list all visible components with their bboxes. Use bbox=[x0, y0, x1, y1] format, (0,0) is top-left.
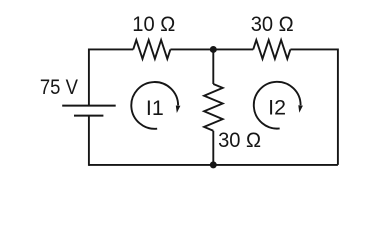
resistor R3 30Ω middle zigzag bbox=[204, 84, 223, 131]
mesh loop I1 arrowhead bbox=[176, 106, 181, 114]
wire left-bottom (from battery) bbox=[88, 116, 90, 166]
wire right side bbox=[337, 49, 339, 165]
svg-text:75 V: 75 V bbox=[40, 75, 79, 99]
mesh loop I2 arrowhead bbox=[298, 105, 303, 113]
wire left-top (to battery) bbox=[88, 49, 90, 106]
wire middle branch lower stub bbox=[212, 131, 214, 165]
svg-text:I1: I1 bbox=[146, 96, 164, 120]
mesh loop I2 arc bbox=[254, 82, 301, 129]
wire top-right segment bbox=[290, 48, 338, 50]
svg-text:30 Ω: 30 Ω bbox=[251, 12, 294, 36]
wire bottom bbox=[89, 164, 338, 166]
mesh loop I1 arc bbox=[131, 82, 178, 129]
resistor R1 10Ω zigzag bbox=[133, 40, 170, 59]
svg-text:I2: I2 bbox=[268, 96, 286, 120]
svg-text:30 Ω: 30 Ω bbox=[218, 128, 261, 152]
resistor R2 30Ω top zigzag bbox=[253, 40, 290, 59]
wire top-left segment bbox=[89, 48, 133, 50]
svg-text:10 Ω: 10 Ω bbox=[132, 12, 175, 36]
node dot top bbox=[210, 46, 217, 53]
wire middle branch upper stub bbox=[212, 49, 214, 84]
battery V1 short plate bbox=[74, 115, 103, 117]
node dot bottom bbox=[210, 161, 217, 168]
wire top-middle segment bbox=[170, 48, 253, 50]
battery V1 long plate bbox=[62, 105, 115, 107]
